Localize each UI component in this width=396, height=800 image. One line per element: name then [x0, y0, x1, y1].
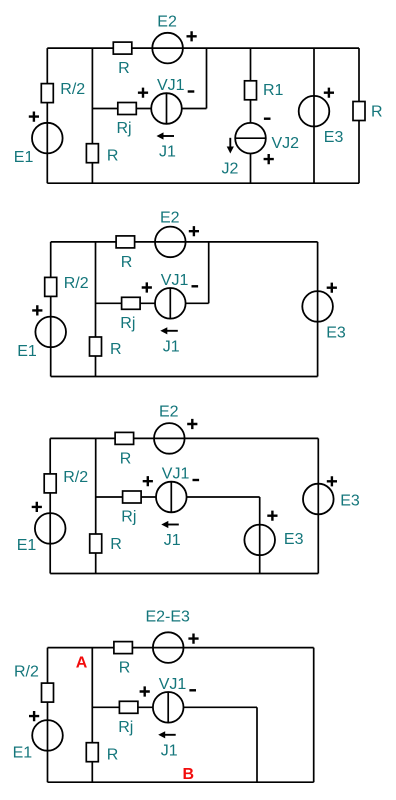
resistor Rj c3: [123, 491, 142, 503]
svg-text:E3: E3: [340, 493, 360, 510]
label E2 c2: [160, 210, 180, 227]
E2-E3 polarity plus c4: [188, 634, 198, 644]
label R lower c1: [107, 148, 119, 165]
VJ1 polarity minus c2: [192, 285, 199, 287]
svg-text:VJ1: VJ1: [157, 77, 185, 94]
current arrow J1 c3: [161, 521, 179, 528]
label R lower c3: [110, 536, 122, 553]
wire second vertical c1: [91, 48, 93, 183]
wire bottom c4: [48, 781, 314, 783]
label J1 c3: [164, 532, 181, 549]
wire middle c1: [92, 108, 151, 110]
label VJ1 c4: [159, 676, 187, 693]
svg-text:R: R: [110, 536, 122, 553]
svg-text:E2: E2: [157, 13, 177, 30]
wire VJ1 to E3 branch c3: [187, 497, 260, 574]
svg-text:E2: E2: [159, 404, 179, 421]
svg-text:J1: J1: [164, 532, 181, 549]
wire middle c4: [92, 706, 153, 708]
svg-text:Rj: Rj: [117, 120, 132, 137]
E3 polarity plus c2: [327, 283, 337, 293]
resistor R/2 c1: [41, 84, 53, 103]
source E3 right c3: [303, 484, 334, 515]
svg-text:VJ2: VJ2: [272, 135, 300, 152]
wire top c2: [51, 241, 318, 243]
svg-text:J2: J2: [222, 161, 239, 178]
wire left vertical c4: [47, 648, 49, 783]
E3 right polarity plus c3: [327, 476, 337, 486]
svg-text:R: R: [110, 341, 122, 358]
label R/2 c4: [14, 664, 39, 681]
E1 polarity plus c3: [32, 502, 42, 512]
label R top c2: [121, 254, 133, 271]
svg-text:E1: E1: [17, 537, 37, 554]
label E1 c4: [13, 745, 33, 762]
wire VJ1 to branch c4: [184, 707, 258, 782]
resistor R lower c4: [86, 743, 98, 762]
wire second vertical c4: [91, 648, 93, 783]
resistor Rj c2: [122, 297, 141, 309]
resistor Rj c1: [118, 103, 137, 115]
svg-text:R: R: [107, 747, 119, 764]
svg-text:E2-E3: E2-E3: [145, 609, 190, 626]
label VJ2 c1: [272, 135, 300, 152]
label R lower c4: [107, 747, 119, 764]
node A c4: [76, 655, 88, 672]
svg-text:E1: E1: [17, 343, 37, 360]
label E2 c3: [159, 404, 179, 421]
svg-text:R/2: R/2: [60, 81, 85, 98]
resistor R1 c1: [245, 81, 257, 100]
svg-text:R: R: [371, 104, 383, 121]
resistor R top c1: [113, 42, 132, 54]
resistor R/2 c2: [45, 277, 57, 296]
node B c4: [183, 766, 195, 783]
wire top c4: [48, 647, 314, 649]
label J1 c4: [161, 742, 178, 759]
source E2 c3: [154, 423, 185, 454]
label R right c1: [371, 104, 383, 121]
svg-text:B: B: [183, 766, 195, 783]
source E1 c4: [32, 720, 63, 751]
resistor R lower c3: [90, 534, 102, 553]
wire second vertical c2: [95, 242, 97, 377]
wire middle c2: [96, 302, 156, 304]
source E2 c1: [152, 33, 183, 64]
E2 polarity plus c3: [187, 419, 197, 429]
source E3 c1: [299, 96, 330, 127]
svg-text:J1: J1: [161, 742, 178, 759]
label E1 c3: [17, 537, 37, 554]
label Rj c2: [120, 315, 135, 332]
label VJ1 c3: [162, 466, 190, 483]
source E1 c2: [35, 317, 66, 348]
svg-text:A: A: [76, 655, 88, 672]
svg-text:R: R: [119, 660, 131, 677]
label E3 middle c3: [284, 531, 304, 548]
source VJ1 c4: [153, 692, 184, 723]
VJ1 polarity plus c2: [142, 282, 152, 292]
source E1 c1: [32, 123, 63, 154]
label J1 c1: [159, 144, 176, 161]
svg-text:R: R: [118, 60, 130, 77]
label Rj c1: [117, 120, 132, 137]
source VJ1 c1: [151, 93, 182, 124]
resistor Rj c4: [119, 701, 137, 713]
label E3 c2: [326, 325, 346, 342]
VJ1 polarity minus c4: [189, 689, 196, 691]
source VJ2 c1: [235, 123, 266, 154]
current arrow J1 c1: [157, 132, 175, 139]
label R lower c2: [110, 341, 122, 358]
E1 polarity plus c4: [29, 711, 39, 721]
label R top c4: [119, 660, 131, 677]
VJ1 polarity minus c1: [188, 90, 195, 92]
svg-text:E3: E3: [324, 129, 344, 146]
E1 polarity plus c1: [29, 112, 39, 122]
VJ1 polarity minus c3: [193, 479, 200, 481]
wire top c3: [50, 437, 318, 439]
label E2-E3 c4: [145, 609, 190, 626]
svg-text:E3: E3: [326, 325, 346, 342]
label E2 c1: [157, 13, 177, 30]
label R/2 c3: [63, 469, 88, 486]
source E3 middle c3: [244, 525, 275, 556]
source VJ1 c2: [155, 288, 186, 319]
label E3 c1: [324, 129, 344, 146]
svg-text:R/2: R/2: [64, 275, 89, 292]
label E1 c1: [14, 149, 34, 166]
label R top c3: [120, 450, 132, 467]
E2 polarity plus c2: [189, 226, 199, 236]
resistor R/2 c4: [42, 683, 54, 702]
E2 polarity plus c1: [187, 31, 197, 41]
svg-text:VJ1: VJ1: [159, 676, 187, 693]
label VJ1 c2: [161, 272, 189, 289]
wire bottom c2: [51, 376, 318, 378]
resistor R/2 c3: [44, 474, 56, 493]
wire top c1: [47, 47, 359, 49]
source E2-E3 c4: [153, 632, 184, 663]
svg-text:R: R: [107, 148, 119, 165]
wire middle c3: [96, 496, 156, 498]
resistor R top c3: [115, 432, 134, 444]
label Rj c3: [121, 509, 136, 526]
VJ2 polarity minus c1: [264, 118, 271, 120]
svg-text:J1: J1: [159, 144, 176, 161]
VJ1 polarity plus c4: [140, 686, 150, 696]
source VJ1 c3: [156, 482, 187, 513]
wire E3 branch c2: [317, 242, 319, 377]
E3 polarity plus c1: [324, 88, 334, 98]
resistor R top c2: [116, 236, 135, 248]
svg-text:E1: E1: [14, 149, 34, 166]
wire right vertical c1: [358, 48, 360, 183]
E3 middle polarity plus c3: [267, 511, 277, 521]
wire right vertical c3: [317, 438, 319, 573]
svg-text:R/2: R/2: [14, 664, 39, 681]
label Rj c4: [118, 719, 133, 736]
wire second vertical c3: [95, 438, 97, 573]
label J1 c2: [163, 338, 180, 355]
resistor R top c4: [114, 642, 132, 654]
wire right vertical c4: [313, 648, 315, 783]
wire left vertical c2: [50, 242, 52, 377]
VJ2 polarity plus c1: [264, 154, 274, 164]
resistor R lower c2: [90, 337, 102, 356]
label J2 c1: [222, 161, 239, 178]
wire VJ1 to top c2: [186, 242, 209, 303]
wire R1 branch c1: [250, 48, 252, 183]
svg-text:Rj: Rj: [120, 315, 135, 332]
label R/2 c2: [64, 275, 89, 292]
VJ1 polarity plus c1: [138, 88, 148, 98]
svg-text:R1: R1: [263, 82, 284, 99]
E1 polarity plus c2: [32, 305, 42, 315]
current arrow J2 c1: [227, 138, 234, 154]
wire left vertical c3: [49, 438, 51, 573]
wire E3 branch c1: [313, 48, 315, 183]
label R1 c1: [263, 82, 284, 99]
source E3 c2: [302, 291, 333, 322]
wire VJ1 to top c1: [182, 48, 207, 108]
current arrow J1 c2: [160, 327, 178, 334]
wire bottom c1: [47, 182, 359, 184]
svg-text:Rj: Rj: [118, 719, 133, 736]
svg-text:VJ1: VJ1: [162, 466, 190, 483]
label R/2 c1: [60, 81, 85, 98]
current arrow J1 c4: [158, 731, 176, 738]
svg-text:VJ1: VJ1: [161, 272, 189, 289]
wire left vertical c1: [46, 48, 48, 183]
svg-text:J1: J1: [163, 338, 180, 355]
resistor R lower c1: [86, 144, 98, 163]
svg-text:E2: E2: [160, 210, 180, 227]
svg-text:R/2: R/2: [63, 469, 88, 486]
label R top c1: [118, 60, 130, 77]
svg-text:E1: E1: [13, 745, 33, 762]
svg-text:E3: E3: [284, 531, 304, 548]
label E1 c2: [17, 343, 37, 360]
source E2 c2: [155, 227, 186, 258]
label E3 right c3: [340, 493, 360, 510]
label VJ1 c1: [157, 77, 185, 94]
svg-text:R: R: [120, 450, 132, 467]
VJ1 polarity plus c3: [143, 476, 153, 486]
svg-text:Rj: Rj: [121, 509, 136, 526]
resistor R right c1: [353, 102, 365, 121]
source E1 c3: [35, 513, 66, 544]
svg-text:R: R: [121, 254, 133, 271]
wire bottom c3: [50, 573, 318, 575]
